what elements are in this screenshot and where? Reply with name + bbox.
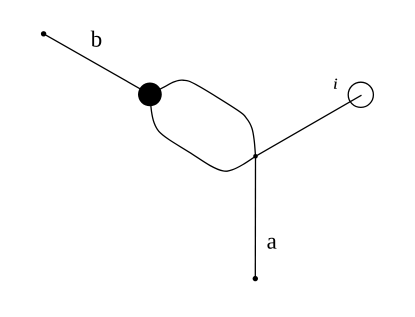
label i	[334, 79, 337, 89]
node a endpoint dot	[253, 276, 258, 281]
node small circle i terminal	[348, 82, 373, 107]
wire b-line	[44, 34, 150, 95]
label a	[267, 238, 276, 249]
wire i-line	[256, 95, 362, 156]
label b	[91, 31, 102, 47]
wire lens top edge	[150, 80, 256, 156]
node filled black vertex	[138, 83, 162, 107]
wire a-line	[254, 156, 256, 278]
node b endpoint dot	[41, 31, 46, 36]
wire lens bottom edge	[150, 94, 256, 171]
node junction dot	[253, 154, 258, 159]
